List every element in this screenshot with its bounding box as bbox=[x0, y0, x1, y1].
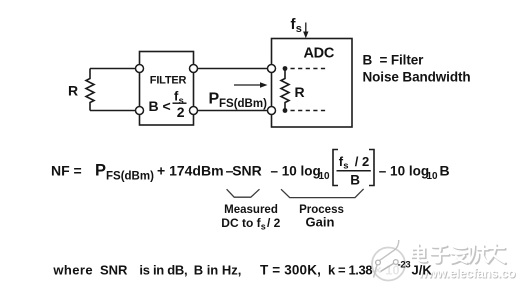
svg-text:Gain: Gain bbox=[306, 215, 335, 230]
svg-text:+ 174dBm: + 174dBm bbox=[157, 163, 224, 179]
svg-text:– 10 log: – 10 log bbox=[379, 164, 429, 179]
svg-text:P: P bbox=[95, 162, 106, 180]
svg-text:s: s bbox=[343, 161, 348, 172]
clock arrow bbox=[305, 23, 307, 33]
svg-text:B: B bbox=[350, 173, 360, 188]
fraction bar bbox=[337, 170, 371, 172]
svg-text:FILTER: FILTER bbox=[150, 75, 187, 87]
wire filter to ADC bottom bbox=[194, 110, 272, 112]
underbrace measured bbox=[227, 189, 260, 197]
right bracket bbox=[369, 150, 374, 186]
port circle filter right bottom bbox=[190, 107, 198, 115]
watermark logo circle bbox=[372, 240, 405, 281]
svg-text:k = 1.38: k = 1.38 bbox=[328, 263, 372, 278]
wire bbox=[90, 110, 140, 112]
svg-text:P: P bbox=[209, 91, 220, 108]
port circle filter left top bbox=[136, 65, 144, 73]
port circle filter right top bbox=[190, 65, 198, 73]
svg-text:10: 10 bbox=[427, 171, 439, 182]
svg-text:R: R bbox=[68, 83, 78, 99]
svg-text:Measured: Measured bbox=[224, 204, 278, 216]
svg-text:/ 2: / 2 bbox=[267, 216, 281, 230]
svg-text:R: R bbox=[295, 84, 305, 100]
junction dot bottom bbox=[283, 108, 288, 113]
svg-text:s: s bbox=[261, 222, 266, 232]
svg-text:/ 2: / 2 bbox=[355, 154, 369, 169]
svg-text:www.elecfans.com: www.elecfans.com bbox=[417, 267, 517, 281]
svg-text:Noise Bandwidth: Noise Bandwidth bbox=[363, 70, 471, 85]
svg-text:T = 300K,: T = 300K, bbox=[260, 263, 321, 278]
svg-text:J/K: J/K bbox=[412, 263, 433, 278]
underbrace process gain bbox=[281, 189, 364, 198]
svg-text:ADC: ADC bbox=[304, 46, 335, 62]
svg-text:s: s bbox=[296, 23, 302, 35]
svg-text:B <: B < bbox=[149, 98, 171, 114]
svg-text:10: 10 bbox=[319, 171, 331, 182]
svg-text:-23: -23 bbox=[398, 260, 411, 271]
svg-text:DC to f: DC to f bbox=[221, 216, 261, 230]
dashed wire bottom bbox=[291, 110, 328, 112]
resistor R (ADC input) bbox=[281, 69, 289, 111]
svg-text:SNR: SNR bbox=[232, 163, 262, 179]
wire filter to ADC top bbox=[194, 68, 272, 70]
svg-text:B: B bbox=[440, 163, 450, 179]
wire bbox=[90, 68, 140, 70]
svg-text:is in dB,: is in dB, bbox=[139, 263, 187, 278]
port circle ADC bottom bbox=[268, 107, 276, 115]
svg-text:B in Hz,: B in Hz, bbox=[194, 263, 242, 278]
svg-text:FS(dBm): FS(dBm) bbox=[106, 171, 154, 183]
ADC box bbox=[272, 39, 353, 128]
filter box bbox=[140, 52, 194, 126]
svg-text:FS(dBm): FS(dBm) bbox=[219, 98, 267, 110]
port circle filter left bottom bbox=[136, 107, 144, 115]
port circle ADC top bbox=[268, 65, 276, 73]
svg-text:B = Filter: B = Filter bbox=[363, 53, 425, 68]
resistor R (source termination) bbox=[86, 69, 94, 111]
dashed wire top bbox=[291, 68, 328, 70]
svg-text:NF =: NF = bbox=[51, 163, 82, 179]
signal arrow bbox=[234, 84, 261, 86]
left bracket bbox=[333, 150, 338, 186]
svg-text:2: 2 bbox=[177, 104, 185, 120]
watermark characters (stylized, light) bbox=[412, 245, 506, 264]
svg-text:– 10 log: – 10 log bbox=[271, 164, 321, 179]
svg-text:SNR: SNR bbox=[100, 263, 128, 278]
junction dot top bbox=[283, 66, 288, 71]
svg-text:where: where bbox=[52, 263, 93, 278]
